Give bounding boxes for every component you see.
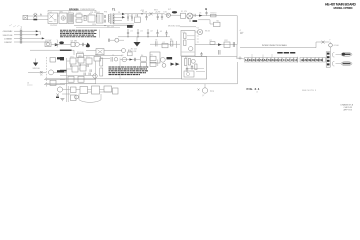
ground arrow GND2	[33, 63, 38, 67]
long rail upper	[45, 78, 182, 80]
wire tube	[195, 31, 197, 33]
svg-text:Q6: Q6	[121, 55, 123, 57]
inner box U3b	[184, 71, 194, 77]
cap tick pair L4	[90, 69, 91, 72]
brace 2	[333, 61, 335, 66]
bus bar thick	[60, 50, 72, 51]
svg-text:115/230V: 115/230V	[50, 25, 58, 27]
strip divider	[297, 57, 299, 63]
box aux	[150, 52, 160, 63]
relay box K5a	[150, 56, 156, 60]
gnd stem	[136, 37, 138, 42]
notes text block	[60, 30, 97, 37]
lamp DS3 stem	[330, 42, 332, 44]
inner circle U3b	[186, 72, 189, 75]
U2 internal dividers	[182, 36, 195, 52]
wire link3	[82, 15, 88, 17]
svg-text:R2: R2	[84, 18, 86, 20]
junction dots TX2	[104, 25, 105, 26]
wire lower b	[198, 20, 214, 24]
capacitor C12	[233, 42, 234, 47]
brace right	[56, 40, 59, 48]
svg-text:r2: r2	[256, 91, 258, 94]
pin circle strip	[239, 57, 241, 59]
resistor R10	[188, 59, 190, 66]
wire row3	[14, 37, 42, 39]
cluster ticks CL2	[129, 50, 131, 52]
ground arrow GND1	[134, 42, 141, 47]
wire bend row1-2	[39, 31, 41, 35]
svg-text:1 GND RET: 1 GND RET	[4, 42, 13, 44]
transformer T2 small	[96, 49, 104, 55]
resistor R7	[210, 42, 215, 45]
output box U3	[182, 57, 207, 80]
main vertical feed	[236, 16, 238, 45]
connector blob J4	[86, 45, 90, 48]
lower left wires	[44, 80, 65, 85]
oval tag 1 text	[343, 54, 351, 56]
arrow A4	[55, 43, 59, 46]
arrow A1	[36, 30, 39, 32]
svg-text:B: B	[205, 7, 207, 11]
svg-text:C2: C2	[130, 15, 132, 17]
wire analog row	[120, 59, 140, 61]
relay box K5b	[150, 62, 156, 66]
analog cluster circle B	[162, 64, 166, 68]
relay K3	[50, 58, 56, 63]
resistor R1	[88, 15, 95, 22]
mid rail wire	[118, 36, 170, 38]
transistor Q6	[191, 59, 195, 63]
wire bus left	[30, 49, 60, 51]
transistor Q2	[71, 42, 79, 46]
hanging capacitor C11	[147, 29, 149, 37]
capacitor C4	[157, 14, 159, 20]
diode D3	[199, 14, 202, 16]
module box K1	[48, 13, 58, 24]
box B1	[71, 87, 77, 93]
cap tick pair L2	[79, 64, 80, 67]
capacitor C14	[186, 67, 188, 73]
resistor R6	[184, 40, 186, 46]
pin stub L5	[73, 55, 89, 58]
svg-text:2 CHASSIS: 2 CHASSIS	[4, 37, 13, 40]
relay box K4a	[141, 57, 147, 61]
wire to tag1	[336, 53, 342, 55]
pin circle 2	[20, 34, 22, 36]
svg-text:RY1: RY1	[168, 9, 171, 11]
pin circle 4	[20, 41, 22, 43]
hanging capacitor C18	[156, 30, 158, 37]
svg-text:SEE NOTE 3: SEE NOTE 3	[302, 90, 317, 92]
logic wires	[67, 60, 87, 69]
transistor Q3	[189, 47, 193, 51]
svg-text:14: 14	[294, 58, 297, 62]
wire mid row	[51, 44, 71, 46]
svg-text:K5: K5	[151, 54, 153, 56]
box B3	[80, 87, 88, 94]
arrow A5	[86, 43, 90, 47]
inner wires U3	[186, 69, 205, 72]
lamp DS3	[329, 43, 333, 47]
svg-text:.01: .01	[140, 31, 143, 33]
transistor Q4	[49, 70, 54, 75]
capacitor C16	[135, 58, 136, 61]
wire ps	[101, 58, 111, 60]
AC plug P1	[23, 15, 28, 19]
wire lamp2 right	[119, 39, 124, 41]
wire L line	[28, 15, 48, 17]
box M2	[224, 42, 230, 48]
svg-text:C1 47: C1 47	[77, 13, 82, 15]
transistor Q11	[121, 48, 125, 52]
svg-text:Y1: Y1	[112, 55, 114, 57]
stray pencil mark	[9, 25, 20, 28]
wire bus right	[72, 49, 74, 51]
svg-text:T1: T1	[112, 7, 116, 11]
resistor R5	[184, 33, 186, 39]
svg-text:K4: K4	[141, 55, 143, 57]
arc drop1	[78, 94, 80, 100]
svg-text:6B: 6B	[319, 58, 322, 62]
svg-text:CR2: CR2	[224, 40, 228, 42]
tall resistor RB	[100, 68, 103, 76]
svg-text:K1 12V: K1 12V	[181, 11, 188, 13]
tall resistor RA	[100, 58, 103, 66]
tube V2	[187, 13, 193, 19]
svg-text:.01: .01	[130, 31, 133, 33]
capacitor C13	[200, 52, 202, 57]
vertical bus left	[66, 58, 68, 86]
capacitor C7	[83, 43, 84, 46]
brace 1	[333, 53, 335, 57]
transistor Q1	[45, 42, 51, 47]
logic box G1	[70, 58, 76, 64]
resistor R4	[170, 41, 173, 46]
junction j3	[147, 36, 148, 37]
drop from lamp	[330, 47, 332, 52]
svg-text:MODEL CP5860: MODEL CP5860	[334, 6, 353, 10]
arc drop2	[100, 94, 102, 100]
box B4	[92, 86, 100, 94]
label K3 (dark)	[57, 57, 63, 59]
resistor R11	[195, 64, 197, 70]
tick column	[197, 36, 199, 42]
arrow A7	[171, 63, 175, 66]
strip riser 3	[271, 54, 273, 57]
tag1 heavy end	[342, 53, 346, 56]
svg-text:A: A	[40, 12, 42, 16]
dimension bracket BR-5086	[48, 10, 96, 12]
vertical pair	[67, 86, 69, 102]
svg-text:C6: C6	[155, 40, 157, 42]
gnd2 stem	[35, 59, 37, 63]
rc cluster X1	[156, 41, 169, 48]
tube V1	[197, 29, 202, 34]
relay RL1 contacts	[76, 14, 82, 22]
svg-text:POWER SUPPLY UNIT: POWER SUPPLY UNIT	[80, 9, 96, 11]
stray marks SL2	[27, 84, 33, 86]
wire drop bus	[73, 50, 75, 55]
box B2	[71, 95, 77, 101]
box LL1	[50, 80, 56, 85]
label Q4 (dark)	[57, 70, 64, 72]
long rail lower	[45, 83, 238, 85]
wire row2	[14, 34, 36, 36]
logic box G2	[78, 57, 84, 63]
svg-text:L1: L1	[69, 12, 71, 14]
svg-text:R4 470: R4 470	[211, 12, 217, 14]
switch S1 (filled)	[33, 19, 37, 21]
svg-text:C9: C9	[70, 57, 72, 59]
svg-text:U1: U1	[183, 32, 185, 34]
junction j1	[127, 36, 128, 37]
tick pair TP1	[84, 73, 85, 76]
strip feed wire	[236, 58, 245, 59]
svg-text:J6: J6	[27, 83, 29, 85]
arrow A8	[176, 63, 180, 66]
transformer T0 primary	[97, 14, 104, 24]
pin circle 3	[20, 37, 22, 39]
svg-text:4: 4	[240, 30, 241, 32]
svg-text:R8 2K: R8 2K	[205, 31, 211, 33]
hanging capacitor C10	[137, 29, 139, 37]
oval tag 2 text	[343, 63, 351, 65]
transformer T1	[108, 14, 114, 25]
wire upper mid link	[86, 50, 96, 52]
svg-text:FIG. 2-1: FIG. 2-1	[247, 87, 260, 91]
arrow A3	[42, 37, 45, 39]
svg-text:C7: C7	[86, 56, 88, 58]
junction dot2	[189, 20, 190, 21]
wire lamp2	[110, 39, 115, 41]
wire right link	[104, 50, 122, 52]
lamp DS1	[166, 13, 170, 17]
dark bar W2	[60, 70, 67, 72]
svg-text:RT1: RT1	[89, 14, 92, 16]
wire lower right	[180, 26, 196, 28]
svg-text:Q7: Q7	[202, 95, 204, 97]
svg-text:Q1 5W: Q1 5W	[45, 40, 51, 42]
terminal strip TB3	[300, 57, 325, 62]
cluster rect CL1	[128, 52, 133, 56]
svg-text:R3 100: R3 100	[77, 52, 84, 54]
hanging capacitor C19	[165, 30, 167, 36]
analog cluster circle A	[160, 57, 165, 62]
fuse F2	[150, 12, 153, 15]
node B stub	[206, 11, 208, 16]
svg-text:V1: V1	[197, 27, 199, 29]
bottom wires	[62, 90, 113, 95]
fuse F1	[34, 13, 38, 17]
terminal bar	[193, 20, 198, 22]
box B5	[104, 86, 112, 92]
svg-text:3 NEUT LINE: 3 NEUT LINE	[3, 35, 14, 37]
wire row mid2	[79, 44, 86, 46]
svg-text:BR1: BR1	[60, 12, 64, 14]
resistor R3	[77, 53, 84, 57]
dark label amp	[167, 57, 173, 59]
pin circle 1	[20, 30, 22, 32]
svg-text:R7: R7	[210, 40, 212, 42]
svg-text:S2: S2	[50, 12, 52, 14]
dashed divider	[46, 57, 48, 87]
diode D4	[218, 43, 222, 46]
vertical link	[157, 60, 159, 67]
header pin 1	[327, 53, 330, 55]
regulator box VR1	[135, 17, 141, 23]
diode D1	[122, 13, 125, 15]
wire lower mid	[84, 54, 123, 56]
ground GND3	[60, 98, 64, 100]
note mark NE2	[240, 32, 243, 33]
svg-text:PRI: PRI	[104, 12, 107, 14]
svg-text:K2: K2	[163, 42, 165, 44]
wire row4	[14, 41, 48, 43]
header pin 4	[327, 63, 330, 65]
capacitor C8	[109, 39, 110, 42]
riser	[316, 42, 330, 48]
fuse F3	[322, 41, 325, 44]
cap tick pair L3	[87, 64, 88, 67]
svg-text:DS1: DS1	[164, 11, 168, 13]
transistor Q5	[93, 74, 97, 78]
svg-text:SEC 24V: SEC 24V	[107, 26, 115, 28]
diode D2	[122, 16, 125, 18]
transistor Q10	[122, 57, 127, 62]
wire to tag2	[336, 63, 342, 65]
wire rc	[150, 43, 180, 45]
dark label W1	[60, 57, 64, 60]
terminal block TB1	[20, 29, 22, 43]
connector blob J3	[59, 41, 64, 44]
svg-text:C3: C3	[148, 15, 150, 17]
capacitor C15	[191, 65, 193, 70]
svg-text:APP R.N: APP R.N	[344, 109, 353, 112]
value label block	[127, 25, 133, 28]
connector blob J2	[172, 11, 177, 13]
relay box K4b	[141, 63, 147, 67]
junction j2	[137, 36, 138, 37]
tick pair TP2	[89, 73, 90, 76]
cap pair TX2	[105, 20, 106, 23]
junction dot	[141, 13, 142, 14]
logic box G7	[78, 76, 84, 82]
svg-text:R9: R9	[185, 57, 187, 59]
svg-text:+12V: +12V	[155, 12, 161, 14]
crystal Y1	[111, 57, 118, 62]
transistor Q7	[202, 88, 207, 93]
oval tag 1	[341, 52, 352, 56]
wire bottom return	[74, 25, 134, 27]
svg-text:.02: .02	[150, 31, 153, 33]
wire +V rail	[125, 13, 164, 15]
strip pin text	[245, 58, 298, 62]
lower logic wires	[60, 76, 96, 84]
svg-text:R6: R6	[170, 39, 172, 41]
svg-text:F2 2A: F2 2A	[142, 11, 148, 14]
strip riser 1	[251, 54, 253, 57]
capacitor C17	[219, 50, 220, 55]
long wire to right	[240, 47, 316, 49]
wire link2	[74, 15, 77, 17]
svg-text:MODEL 5060: MODEL 5060	[168, 26, 181, 28]
amplifier box U2	[181, 31, 195, 57]
left wire lower	[28, 72, 46, 74]
resistor R2	[211, 14, 217, 17]
header pin 2	[327, 56, 330, 58]
terminal strip TB2	[245, 57, 298, 62]
wire row1	[14, 30, 36, 32]
connector header J5	[326, 52, 330, 67]
relay RL2	[181, 13, 186, 18]
strip riser 2	[262, 55, 264, 58]
svg-text:4 100-240VAC: 4 100-240VAC	[3, 30, 14, 33]
capacitor C3	[145, 14, 147, 21]
capacitor C1	[127, 14, 129, 21]
wire b rail	[193, 15, 237, 17]
capacitor C5	[161, 14, 163, 20]
hanging capacitor C9	[127, 29, 129, 37]
capacitor C2	[131, 14, 133, 21]
svg-text:C8: C8	[78, 56, 80, 58]
cap tick pair L1	[71, 65, 72, 68]
secondary wires	[114, 14, 134, 24]
svg-text:0 100: 0 100	[334, 45, 339, 47]
X mark lower	[40, 71, 43, 74]
lower rail wire	[195, 55, 237, 57]
svg-text:M1: M1	[217, 21, 220, 23]
wire drop q7	[204, 84, 206, 88]
wire to relay	[170, 14, 181, 16]
lamp DS2	[115, 38, 119, 42]
wire lamp feed	[164, 13, 166, 16]
filter choke L1	[68, 13, 74, 24]
svg-text:D3: D3	[199, 13, 201, 15]
diode D5	[130, 58, 133, 60]
junction dots TX	[96, 15, 97, 16]
svg-text:PS1: PS1	[95, 55, 98, 57]
transistor Q9	[75, 95, 79, 99]
resistor R12	[84, 15, 86, 20]
box M1	[214, 22, 221, 26]
q7 left mark	[198, 89, 200, 91]
drop to strip	[236, 45, 238, 59]
dark dash label	[277, 52, 295, 54]
arc wire	[79, 100, 101, 103]
logic box G4	[72, 66, 78, 72]
svg-text:.05: .05	[160, 31, 163, 33]
svg-text:D1: D1	[118, 12, 120, 14]
capacitor C6 ticks	[205, 13, 207, 14]
contact marks	[194, 14, 195, 17]
cap pair TX1	[105, 15, 106, 18]
warning text block	[109, 67, 149, 75]
logic box G6	[68, 76, 74, 82]
logic box G5	[80, 65, 86, 71]
oval tag 2	[341, 62, 352, 66]
svg-text:Q2 1W: Q2 1W	[71, 40, 77, 42]
mid right rail	[195, 44, 237, 46]
arrow A2	[36, 34, 39, 36]
notes bracket	[99, 30, 101, 38]
wire bottom return 2	[76, 26, 120, 28]
wire N line	[28, 19, 48, 21]
ladder right bound	[119, 58, 121, 79]
resistor R9	[185, 59, 187, 66]
strip2 pin text	[300, 58, 322, 62]
wire drop x176	[176, 41, 178, 48]
